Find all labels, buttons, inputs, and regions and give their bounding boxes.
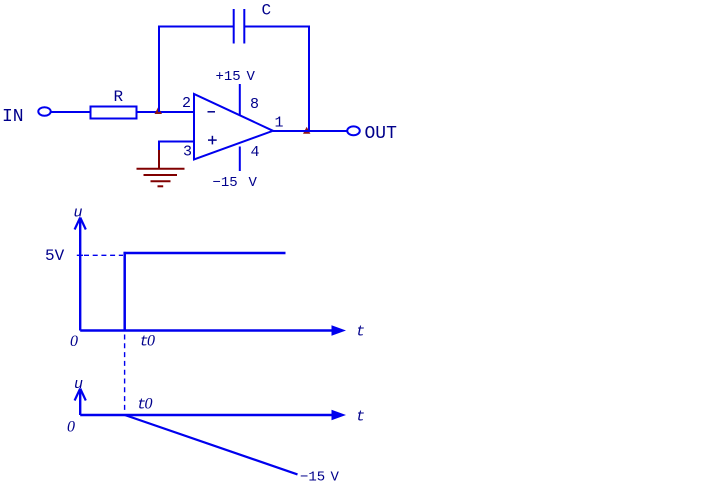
svg-text:1: 1	[275, 115, 284, 132]
ground bar 2	[144, 174, 178, 176]
svg-text:4: 4	[251, 144, 260, 161]
svg-text:0: 0	[147, 333, 155, 350]
svg-text:u: u	[74, 205, 83, 222]
ground bar 3	[151, 180, 171, 182]
wire R to op-amp pin 2	[137, 111, 195, 113]
wire feedback down to output	[308, 26, 310, 132]
terminal IN	[38, 107, 50, 116]
graph1 t-axis arrowhead	[332, 325, 347, 336]
graph1 step level line	[124, 252, 286, 255]
graph2 u-axis arrowhead	[75, 389, 86, 401]
svg-text:8: 8	[250, 96, 259, 113]
graph1 tick at 5V	[77, 254, 83, 256]
svg-text:V: V	[249, 175, 258, 191]
svg-text:u: u	[74, 376, 83, 393]
graph1 t-axis	[80, 329, 334, 331]
capacitor C right plate	[243, 9, 245, 44]
graph2 t-axis	[80, 414, 334, 416]
svg-text:−15: −15	[300, 470, 325, 485]
graph1 u-axis	[79, 219, 81, 331]
svg-text:0: 0	[70, 333, 78, 350]
svg-text:R: R	[114, 88, 124, 106]
junction node A	[155, 107, 163, 114]
wire output	[273, 130, 347, 132]
svg-text:5V: 5V	[45, 247, 65, 265]
wire feedback top right	[244, 26, 310, 28]
svg-text:V: V	[247, 69, 256, 85]
graph2 u-axis	[79, 390, 81, 415]
svg-text:t: t	[356, 409, 365, 426]
ground bar 1	[137, 168, 185, 170]
capacitor C left plate	[233, 9, 235, 44]
svg-text:IN: IN	[2, 107, 24, 127]
svg-text:V: V	[331, 470, 340, 485]
ground bar 4	[158, 185, 164, 187]
graph2 t-axis arrowhead	[332, 410, 347, 421]
wire node A up to feedback	[158, 26, 160, 113]
svg-text:OUT: OUT	[365, 124, 398, 144]
graph1 u-axis arrowhead	[75, 218, 86, 230]
svg-text:0: 0	[67, 419, 75, 436]
wire feedback top left	[158, 26, 234, 28]
svg-text:3: 3	[183, 144, 192, 161]
op-amp plus sign	[208, 136, 217, 145]
op-amp U1	[194, 94, 273, 160]
junction node B	[303, 127, 310, 134]
svg-text:0: 0	[145, 396, 153, 413]
svg-text:t: t	[356, 324, 365, 341]
op-amp minus sign	[208, 111, 216, 113]
svg-text:2: 2	[182, 95, 191, 112]
ground stem	[158, 150, 160, 169]
svg-text:+15: +15	[216, 69, 241, 85]
resistor R	[91, 107, 137, 119]
wire pin 4 power	[239, 147, 241, 172]
dashed t0 vertical	[124, 335, 126, 411]
wire pin 8 power	[239, 84, 241, 116]
wire pin 3	[159, 141, 194, 143]
graph1 step vertical	[123, 252, 126, 331]
svg-text:−15: −15	[213, 175, 238, 191]
svg-text:C: C	[262, 2, 272, 20]
graph2 ramp	[125, 415, 298, 474]
terminal OUT	[347, 126, 360, 135]
wire IN to R	[51, 111, 91, 113]
wire pin 3 down	[158, 141, 160, 151]
graph1 dashed 5V level	[84, 254, 123, 256]
